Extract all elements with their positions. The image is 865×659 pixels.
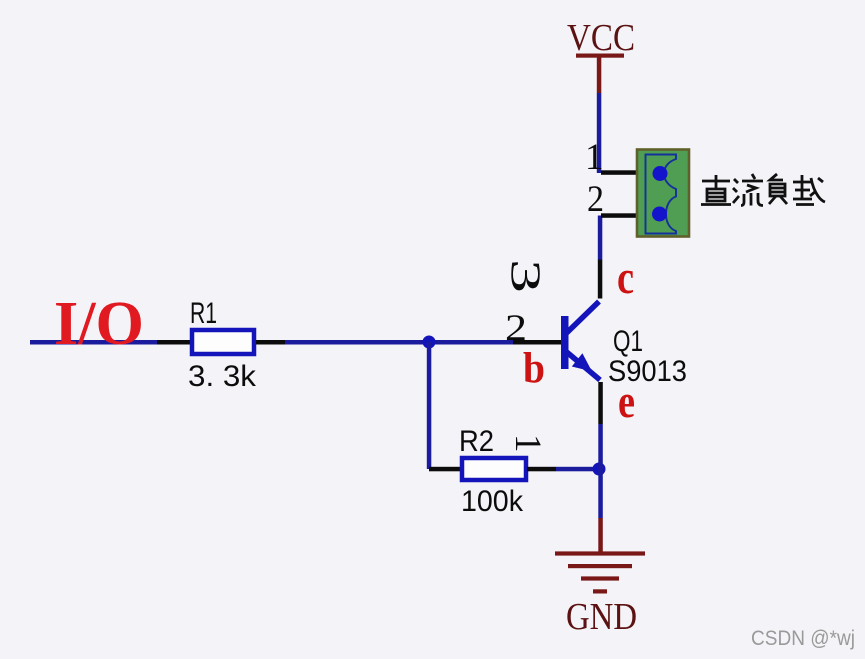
label Q1 designator bbox=[613, 325, 643, 358]
label DC load chinese char zhi bbox=[701, 175, 731, 205]
wire junction down blue bbox=[427, 342, 432, 469]
wire collector up blue bbox=[598, 216, 603, 260]
connector J1 terminal block body bbox=[637, 150, 689, 237]
transistor Q1 emitter arrow bbox=[572, 353, 592, 371]
wire emitter pin black bbox=[598, 382, 603, 424]
svg-text:CSDN @*wj: CSDN @*wj bbox=[751, 627, 855, 650]
connector inner outline bbox=[646, 155, 677, 234]
pin number 3 of transistor collector rotated bbox=[502, 259, 548, 293]
label 100k value bbox=[461, 485, 524, 518]
wire R2 left pin black bbox=[429, 467, 461, 472]
wire base pin black bbox=[513, 340, 562, 345]
watermark CSDN bbox=[751, 627, 855, 650]
wire R1 to base blue bbox=[285, 340, 513, 345]
label DC load chinese char zai bbox=[793, 175, 825, 205]
node I/O label bbox=[54, 290, 144, 358]
node junction dot at base branch bbox=[423, 336, 436, 349]
label S9013 part number bbox=[608, 355, 687, 388]
label 3.3k value bbox=[188, 360, 257, 393]
connector contact 1 dot bbox=[653, 166, 668, 181]
ground symbol GND bbox=[555, 551, 645, 593]
svg-text:Q1: Q1 bbox=[613, 325, 643, 358]
label e emitter red bbox=[618, 375, 635, 428]
resistor R1 bbox=[192, 330, 254, 354]
svg-text:S9013: S9013 bbox=[608, 355, 687, 388]
connector contact 2 dot bbox=[652, 207, 667, 222]
wire VCC stem maroon bbox=[597, 57, 602, 93]
label b base red bbox=[523, 345, 545, 392]
svg-text:R2: R2 bbox=[459, 425, 494, 458]
svg-text:b: b bbox=[523, 345, 545, 392]
node junction dot at emitter net bbox=[593, 463, 606, 476]
svg-text:1: 1 bbox=[507, 434, 548, 453]
label R1 bbox=[190, 297, 217, 330]
pin number 2 of transistor base bbox=[505, 308, 527, 349]
wire R2 right pin black bbox=[527, 467, 556, 472]
label DC load chinese char fu bbox=[769, 174, 787, 204]
pin number 2 of connector bbox=[587, 179, 604, 220]
wire connector pin 1 stub black bbox=[601, 170, 637, 175]
svg-text:100k: 100k bbox=[461, 485, 524, 518]
wire input left blue segment bbox=[30, 340, 157, 345]
pin number 1 of connector bbox=[585, 137, 604, 178]
transistor Q1 emitter diagonal bbox=[566, 351, 601, 380]
svg-text:I/O: I/O bbox=[54, 290, 144, 358]
svg-text:3: 3 bbox=[502, 259, 548, 293]
svg-text:3. 3k: 3. 3k bbox=[188, 360, 257, 393]
transistor Q1 base bar bbox=[561, 316, 569, 369]
wire emitter down blue bbox=[598, 424, 603, 518]
label GND bbox=[566, 596, 637, 638]
wire collector pin black bbox=[598, 260, 603, 299]
wire to ground maroon bbox=[598, 518, 603, 553]
wire R2 to emitter net blue bbox=[556, 467, 602, 472]
resistor R2 bbox=[462, 458, 526, 480]
pin number 1 of R2 rotated bbox=[507, 434, 548, 453]
svg-text:R1: R1 bbox=[190, 297, 217, 330]
label c collector red bbox=[617, 251, 634, 304]
wire connector pin 2 stub black bbox=[601, 213, 637, 218]
label VCC bbox=[567, 17, 635, 59]
power symbol VCC bar bbox=[576, 54, 624, 58]
svg-text:VCC: VCC bbox=[567, 17, 635, 59]
wire R1 left pin black bbox=[157, 340, 192, 345]
label R2 bbox=[459, 425, 494, 458]
wire VCC stem blue bbox=[597, 93, 602, 173]
transistor Q1 collector diagonal bbox=[566, 302, 600, 335]
svg-text:1: 1 bbox=[585, 137, 604, 178]
svg-text:GND: GND bbox=[566, 596, 637, 638]
wire R1 right pin black bbox=[256, 340, 285, 345]
svg-text:c: c bbox=[617, 251, 634, 304]
label DC load chinese char liu bbox=[733, 174, 763, 206]
